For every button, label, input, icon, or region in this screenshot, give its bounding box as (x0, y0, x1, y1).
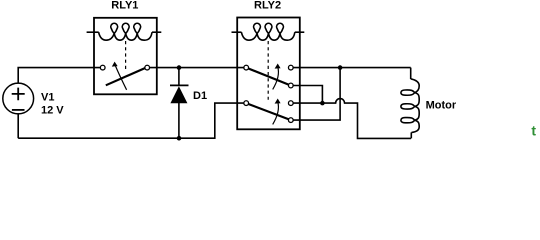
wire NO1 down to NC2 level (293, 86, 322, 104)
RLY2 dashed actuator line (267, 41, 269, 100)
motor coil (401, 79, 419, 133)
wire RLY1 right contact to RLY2 pole1 (150, 67, 244, 69)
relay RLY2 box (237, 18, 300, 130)
svg-text:t: t (531, 123, 536, 139)
wire V1 bottom lead (17, 113, 19, 138)
diode D1 cathode bar (170, 84, 189, 86)
svg-text:RLY2: RLY2 (254, 0, 281, 12)
svg-text:RLY1: RLY1 (111, 0, 138, 12)
node crossover top junction (338, 65, 343, 70)
RLY2 throw NC1 contact (288, 65, 293, 70)
svg-text:D1: D1 (193, 90, 207, 102)
RLY2 throw NO1 contact (288, 83, 293, 88)
wire NC1 to motor top (293, 67, 411, 69)
relay RLY1 coil right stub (152, 31, 161, 33)
svg-text:12 V: 12 V (41, 105, 64, 117)
voltage source V1 (3, 83, 34, 114)
wire bottom rail to RLY2 pole2 (18, 103, 244, 138)
wire NC2 with hop then down and right (293, 99, 411, 139)
node diode top junction (177, 65, 182, 70)
RLY1 actuator arrow (115, 65, 127, 90)
diode D1 anode lead (178, 103, 180, 138)
RLY1 left contact (100, 65, 105, 70)
motor lead bottom (410, 132, 412, 138)
RLY1 switch blade (106, 68, 145, 85)
RLY2 throw NC2 contact (288, 101, 293, 106)
RLY2 pole1 blade (248, 69, 288, 85)
RLY2 pole2 common contact (244, 101, 249, 106)
relay RLY2 coil right stub (295, 31, 305, 33)
wire NO2 up to motor top junction (293, 68, 340, 121)
relay RLY1 coil (99, 23, 152, 40)
relay RLY1 box (94, 18, 157, 95)
relay RLY2 coil left stub (232, 31, 242, 33)
RLY2 pole2 actuator arrow (273, 102, 279, 125)
diode D1 triangle (170, 86, 187, 103)
motor lead top (410, 68, 412, 79)
wire V1 top lead (18, 68, 100, 84)
relay RLY2 coil (241, 23, 294, 40)
diode D1 cathode lead (178, 68, 180, 86)
RLY1 dashed actuator line (125, 41, 127, 70)
RLY2 pole1 common contact (244, 65, 249, 70)
node diode bottom junction (177, 136, 182, 141)
node NO1-NC2 junction (320, 101, 325, 106)
RLY2 pole2 blade (248, 104, 288, 119)
RLY2 throw NO2 contact (288, 118, 293, 123)
RLY2 pole1 actuator arrow (273, 67, 279, 90)
svg-text:V1: V1 (41, 92, 54, 104)
RLY1 right contact (145, 65, 150, 70)
svg-text:Motor: Motor (426, 99, 457, 111)
relay RLY1 coil left stub (87, 31, 99, 33)
